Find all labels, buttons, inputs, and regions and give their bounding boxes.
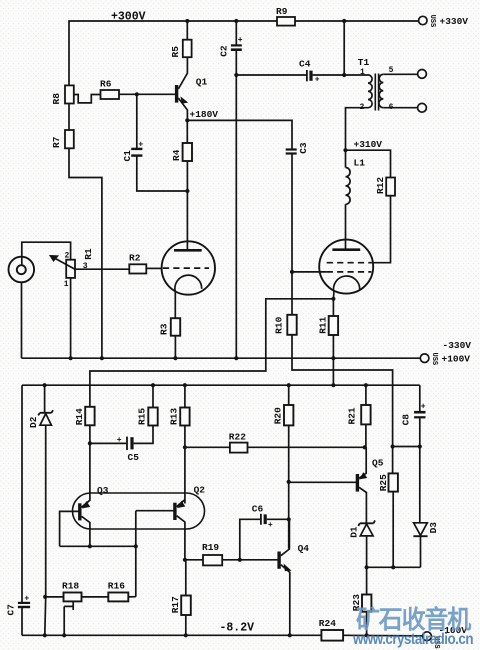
capacitor C4 [236, 74, 306, 76]
transistor Q2 [173, 503, 176, 520]
svg-text:2: 2 [65, 252, 70, 261]
node rail Q4 emitter [288, 633, 292, 637]
svg-text:-330V: -330V [443, 340, 472, 351]
resistor R22 [185, 446, 230, 448]
tube V1 [162, 241, 215, 294]
tube V2 cathode [334, 276, 360, 292]
node C5 [88, 441, 92, 445]
tube V2 control grid dashes [327, 271, 372, 273]
svg-text:R16: R16 [108, 581, 125, 592]
svg-text:R22: R22 [229, 431, 246, 442]
svg-text:+100V: +100V [442, 354, 471, 365]
svg-text:+330V: +330V [440, 16, 469, 27]
svg-text:-8.2V: -8.2V [220, 622, 255, 635]
svg-text:R2: R2 [129, 253, 141, 264]
resistor R19 [185, 559, 203, 561]
capacitor C5 [90, 442, 126, 444]
node V2 grid [290, 270, 294, 274]
node R11 rail A [331, 356, 335, 360]
wire R7 down right down to ground rail [69, 148, 102, 358]
wire T1 pin5 to terminal [383, 73, 417, 75]
wire D1 D3 bottom bus [367, 566, 421, 568]
svg-text:R14: R14 [74, 408, 85, 425]
resistor R2 [129, 264, 146, 273]
node T1 pin1 rail [342, 19, 346, 23]
svg-text:C1: C1 [122, 150, 133, 162]
resistor R15 [148, 408, 157, 426]
ground rail -330V/+100V [22, 357, 421, 359]
wire cathode to net B [90, 299, 334, 407]
node R13 rail D [183, 383, 187, 387]
svg-text:矿石收音机: 矿石收音机 [356, 605, 471, 634]
transformer T1 primary [368, 75, 372, 108]
svg-text:R21: R21 [346, 407, 357, 424]
capacitor C2 [235, 21, 237, 45]
node R21 rail D [364, 383, 368, 387]
diode D3 [414, 523, 428, 536]
resistor R24 [321, 630, 343, 641]
node R18 left D2 column [43, 595, 47, 599]
svg-text:+: + [24, 595, 29, 604]
svg-text:Q5: Q5 [372, 458, 384, 469]
wire R4 to V1 anode [186, 161, 188, 250]
svg-text:R11: R11 [317, 316, 328, 333]
transistor Q5 [356, 474, 359, 492]
svg-text:R5: R5 [170, 46, 181, 58]
tube V1 anode bar [174, 249, 202, 252]
resistor R10 [291, 272, 293, 315]
svg-text:R8: R8 [51, 93, 62, 105]
node R21 Q5 [363, 445, 367, 449]
wire R3 to rail [174, 336, 176, 359]
svg-text:+: + [117, 436, 122, 445]
node R25 top [391, 444, 395, 448]
svg-text:R15: R15 [136, 408, 147, 425]
svg-text:C2: C2 [219, 45, 230, 57]
svg-text:R3: R3 [158, 323, 169, 335]
wire R6 to Q1 base [119, 93, 177, 95]
node rail R17 [184, 633, 188, 637]
resistor R14 [85, 407, 94, 426]
node rail C2 [234, 356, 238, 360]
svg-text:Q1: Q1 [196, 77, 208, 88]
wire R1 bottom to rail [70, 278, 72, 358]
wire +180V to C3 [187, 120, 292, 148]
node R13 R22 [183, 445, 187, 449]
resistor R18 trimmer [45, 596, 63, 598]
wire R8 to R7 [68, 104, 70, 131]
svg-text:Q3: Q3 [97, 485, 109, 496]
wire +330V rail right of R9 [295, 20, 419, 22]
node R15 rail D [151, 383, 155, 387]
wire R20 column [288, 385, 290, 549]
node rail R1 [69, 356, 73, 360]
node cathode [331, 297, 335, 301]
transformer T1 core [375, 74, 378, 111]
tube V1 grid dashes [163, 267, 209, 269]
svg-text:R13: R13 [169, 408, 180, 425]
svg-text:R19: R19 [202, 542, 219, 553]
svg-text:+: + [421, 403, 426, 412]
node Q5 base junction [287, 480, 291, 484]
svg-text:+300V: +300V [111, 11, 146, 24]
node +310V [343, 148, 347, 152]
resistor R4 [186, 120, 188, 143]
wire R25 to bottom node [392, 492, 394, 568]
resistor R21 [361, 405, 370, 424]
svg-text:USS: USS [430, 353, 438, 366]
terminal -330V +100V [420, 354, 429, 363]
wire R5 to rail [186, 21, 188, 40]
svg-text:C6: C6 [252, 504, 264, 515]
wire R1 wiper to R2 [75, 268, 129, 270]
svg-text:C8: C8 [401, 414, 412, 426]
node C8 bottom [418, 444, 422, 448]
node rail R23 [365, 633, 369, 637]
capacitor C7 [18, 602, 30, 604]
node rail R7 [100, 356, 104, 360]
svg-text:C3: C3 [298, 142, 309, 154]
capacitor C8 [414, 411, 425, 414]
svg-text:+: + [315, 76, 320, 85]
svg-text:+: + [238, 36, 243, 45]
resistor R6 [101, 90, 120, 99]
node rail R3 [173, 356, 177, 360]
svg-text:R10: R10 [274, 316, 285, 333]
zener diode D1 [360, 524, 373, 536]
wire +310V to R12 [346, 150, 391, 177]
resistor R5 [183, 40, 192, 58]
wire R8 wiper zigzag to R6 [74, 95, 101, 103]
resistor R23 [366, 567, 368, 594]
wire R12 to V2 screen grid [371, 196, 390, 263]
svg-text:C7: C7 [6, 604, 17, 616]
node R11 rail D [331, 383, 335, 387]
node R25 bottom [391, 565, 395, 569]
zener diode D2 [44, 385, 46, 413]
svg-text:R1: R1 [83, 248, 94, 260]
node T1 pin1 C4 [342, 73, 346, 77]
resistor R7 [65, 130, 74, 148]
node C2 rail [234, 19, 238, 23]
svg-text:+310V: +310V [354, 139, 383, 150]
svg-text:R24: R24 [319, 618, 336, 629]
wire jack sleeve down to rail [21, 282, 23, 358]
svg-text:T1: T1 [358, 57, 370, 68]
resistor R16 [82, 596, 109, 598]
wire jack tip up to R1 top [22, 242, 71, 265]
terminal -100V [423, 632, 432, 641]
wire R24 to terminal [343, 634, 423, 637]
svg-text:R17: R17 [170, 596, 181, 613]
svg-text:+180V: +180V [190, 109, 219, 120]
terminal pin6 [418, 103, 427, 112]
transistor Q3 [78, 503, 81, 520]
wire T1 pin2 down to +310V node [346, 108, 369, 168]
capacitor C6 [240, 519, 260, 560]
svg-text:R6: R6 [100, 79, 112, 90]
node R5 rail [185, 19, 189, 23]
wire V2 cathode lead [332, 292, 335, 299]
svg-text:R4: R4 [171, 149, 182, 161]
input jack J1 [8, 257, 34, 283]
capacitor C1 [136, 94, 138, 148]
resistor R11 [332, 299, 334, 316]
wire T1 pin6 to terminal [383, 107, 417, 109]
node rail R18 wiper [62, 633, 66, 637]
svg-text:www.crystalradio.cn: www.crystalradio.cn [352, 631, 473, 648]
wire R13 top to rail D [184, 385, 186, 407]
node D1 bottom [365, 565, 369, 569]
svg-text:R7: R7 [51, 136, 62, 148]
svg-text:C4: C4 [299, 58, 311, 69]
bottom rail -8.2V [22, 634, 321, 636]
node C1 anode junction [185, 189, 189, 193]
terminal +330V [419, 16, 427, 24]
svg-text:+: + [138, 140, 143, 149]
svg-text:D1: D1 [349, 526, 360, 538]
wire R14 to C5 node [89, 425, 91, 443]
node C6 right [287, 517, 291, 521]
watermark [352, 605, 473, 648]
resistor R12 [386, 178, 395, 196]
svg-text:R18: R18 [62, 581, 79, 592]
label +300V [111, 11, 146, 24]
wire C8 node to R25 node [393, 446, 420, 448]
terminal pin5 [418, 70, 427, 79]
label -8.2V [220, 622, 255, 635]
wire L1 to V2 anode [345, 204, 347, 249]
transformer T1 secondary [379, 74, 383, 107]
tube V1 cathode [175, 275, 202, 292]
resistor R17 [185, 560, 187, 596]
node D2 top [43, 383, 47, 387]
svg-text:USS: USS [428, 15, 436, 28]
stadium Q2 Q3 outline [73, 493, 205, 529]
wire net D left down to C7 [21, 385, 23, 602]
node R19 left [183, 558, 187, 562]
resistor R8 [65, 85, 74, 103]
svg-text:1: 1 [64, 280, 69, 289]
resistor R3 [171, 318, 180, 336]
svg-text:R9: R9 [276, 6, 288, 17]
wire V2 grid to C3 column [292, 271, 327, 273]
wire R22 to Q5 node [248, 446, 365, 448]
svg-text:L1: L1 [354, 158, 366, 169]
wire rail D right corner down to C8 [419, 385, 421, 411]
wire Q3 base feedback net [60, 511, 136, 597]
capacitor C3 [286, 148, 297, 150]
tube V2 screen grid dashes [327, 262, 372, 264]
resistor R13 [180, 408, 189, 426]
svg-text:1: 1 [360, 68, 365, 77]
resistor R25 [392, 447, 394, 474]
node +180V [185, 118, 189, 122]
node R20 rail D [287, 383, 291, 387]
svg-text:Q2: Q2 [194, 484, 206, 495]
svg-text:+: + [268, 521, 273, 530]
svg-text:R25: R25 [378, 474, 389, 491]
svg-text:Q4: Q4 [298, 543, 310, 554]
wire C8 down to D3 [419, 447, 421, 523]
wire R23 to bottom rail [366, 612, 368, 636]
wire T1 pin1 drop from rail [344, 21, 368, 75]
wire R13 down to Q2 emitter [184, 426, 186, 504]
svg-text:D3: D3 [428, 522, 439, 534]
wire V1 cathode to R3 [174, 291, 176, 319]
node rail D2 [43, 633, 47, 637]
wire R15 top to rail D [152, 385, 154, 407]
rail net D +100V [22, 384, 420, 386]
tube V2 anode bar [332, 248, 360, 251]
transistor Q4 [277, 552, 280, 569]
wire R17 to rail [185, 615, 187, 635]
svg-text:R12: R12 [375, 177, 386, 194]
wire R2 to V1 grid [146, 267, 162, 269]
inductor L1 [346, 168, 351, 205]
resistor R20 [284, 405, 293, 425]
node fb vertical [134, 544, 138, 548]
node C2 bottom / C4 [234, 73, 238, 77]
wire R21 column [365, 385, 367, 447]
node C6 tap [238, 558, 242, 562]
transistor Q1 [175, 85, 178, 103]
node Q1 base / C1 top [135, 92, 139, 96]
svg-text:C5: C5 [128, 452, 140, 463]
resistor R9 [277, 17, 295, 26]
svg-text:R20: R20 [272, 407, 283, 424]
potentiometer R1 [66, 260, 75, 278]
wire R10 down to net C [292, 335, 393, 447]
wire R11 to rails [332, 335, 334, 385]
wire +300V top rail [69, 21, 277, 85]
tube V2 [319, 240, 373, 294]
node Q3 collector fb [88, 544, 92, 548]
svg-text:D2: D2 [28, 416, 39, 428]
